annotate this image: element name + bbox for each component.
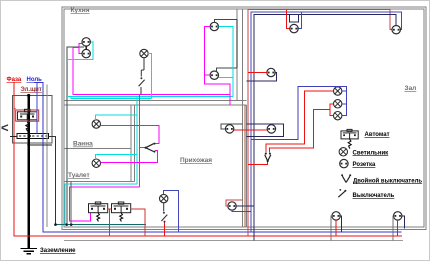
node bus junction 3 — [70, 223, 73, 226]
wire cyan toilet bottom run — [65, 184, 137, 224]
wire magenta bath lamp — [101, 125, 140, 127]
node panel top junction — [27, 94, 30, 97]
wire cyan kitchen lamp drop — [148, 54, 151, 99]
panel box — [13, 96, 53, 143]
breaker-socket toilet 1 — [89, 202, 108, 213]
wire red breaker drop mid — [109, 209, 111, 236]
wire cyan riser to bath zone — [136, 97, 138, 185]
wire navy neutral chandelier — [251, 86, 347, 139]
wire red tap socket H — [335, 220, 337, 236]
legend socket symbol — [340, 159, 348, 167]
wall toilet bottom — [64, 181, 135, 183]
socket hall bottom I — [394, 212, 402, 220]
wire blue tap hall top socket 1 — [298, 12, 301, 28]
lamp chandelier 3 — [334, 112, 342, 120]
lamp kitchen — [140, 49, 148, 57]
wire magenta kitchen socket bracket — [79, 44, 82, 54]
lamp bath — [92, 120, 100, 128]
wire ground kitchen sockets (dark) — [67, 47, 84, 225]
breaker-socket toilet 2 — [112, 202, 131, 213]
wire red riser and top run — [248, 10, 392, 237]
wire kitchen lamp stem — [143, 58, 145, 70]
wire cyan toilet lamp — [96, 154, 137, 159]
socket hall top 2 — [392, 26, 400, 34]
wire black kitchen wall ground vertical — [236, 19, 238, 68]
node panel bottom junction — [27, 143, 30, 146]
lamp hallway — [160, 194, 168, 202]
wall building outer — [62, 7, 426, 229]
node bus junction 1 — [54, 223, 57, 226]
wall bath-toilet divider — [64, 148, 131, 150]
wire navy tap chandelier 2 — [342, 103, 347, 105]
wall kitchen right — [236, 9, 238, 100]
wire ground kitchen socket 3 — [214, 19, 237, 22]
wire navy bracket hall top socket 1 — [289, 15, 298, 22]
wire gray tap socket H — [330, 216, 333, 241]
socket kitchen 4 (right bottom) — [210, 71, 218, 79]
svg-text:Кухня: Кухня — [71, 7, 90, 14]
wire magenta tap socket 4 — [204, 74, 210, 76]
switch hall double — [265, 153, 271, 162]
svg-text:Эл.щит: Эл.щит — [21, 87, 42, 93]
wire black meter stub left — [10, 136, 17, 138]
svg-text:Прихожая: Прихожая — [180, 157, 212, 164]
wire link between kitchen sockets — [85, 46, 87, 49]
socket hallway east — [228, 202, 236, 210]
svg-text:Розетка: Розетка — [353, 162, 377, 168]
wire black meter stub to bottom bus — [49, 137, 56, 225]
wire navy bracket socket F — [246, 124, 283, 136]
wire neutral blue: label to panel interior — [36, 83, 38, 134]
wire phase red main: label to panel, down and along bottom — [14, 82, 402, 236]
wire teal ground bus bottom — [56, 224, 147, 226]
wall hall west (double) — [241, 9, 243, 227]
svg-text:Ноль: Ноль — [27, 77, 43, 83]
wire PEN bus (thick black) — [28, 96, 30, 249]
wire navy hallway socket right 2 — [232, 210, 251, 211]
breaker zigzag lightning — [26, 122, 29, 131]
wire gray tap socket I — [392, 216, 395, 241]
WALLS — [62, 7, 426, 229]
switch bath-toilet double — [145, 143, 156, 153]
wire gray bottom run — [64, 240, 403, 242]
socket hall wall F — [267, 125, 275, 133]
wire red tap hall left socket — [248, 72, 267, 74]
wire navy tap socket H — [340, 216, 341, 232]
switch hallway — [161, 203, 167, 223]
wire red bracket hallway socket — [226, 200, 242, 206]
wire gray ground toilet drop — [70, 182, 72, 225]
wire red tap hall top socket 1 — [287, 10, 290, 29]
wire red breaker right — [131, 209, 145, 236]
wire navy taps chandelier — [342, 90, 347, 92]
svg-text:Ванна: Ванна — [73, 141, 93, 148]
wire navy riser and top run — [254, 15, 396, 241]
wire gray service — [46, 85, 48, 227]
svg-text:Двойной выключатель: Двойной выключатель — [353, 177, 422, 184]
meter terminal strip — [17, 133, 49, 138]
wire ground kitchen socket 4 — [217, 68, 238, 72]
wire dark red riser hallway — [244, 105, 246, 227]
legend breaker symbol — [341, 129, 358, 139]
legend switch symbol — [338, 189, 346, 197]
breaker zigzag toilet 2 — [120, 213, 123, 222]
wire navy hallway socket right 1 — [236, 205, 254, 207]
wire cyan kitchen socket bracket — [67, 42, 233, 97]
socket hallway G — [225, 125, 233, 133]
wire red feed switch common — [248, 161, 268, 164]
svg-text:<: < — [1, 120, 9, 135]
wire magenta riser to bath zone — [138, 95, 140, 187]
socket kitchen 3 (right top) — [210, 22, 218, 30]
switch kitchen — [139, 70, 145, 95]
wire cyan kitchen right sockets — [219, 27, 234, 97]
wire magenta switch common feed — [139, 147, 144, 149]
wire magenta kitchen feed — [73, 47, 230, 94]
svg-text:Выключатель: Выключатель — [353, 193, 395, 199]
legend lamp symbol — [339, 148, 347, 156]
socket hall left wall — [267, 68, 275, 76]
wire navy tap socket I — [402, 216, 405, 229]
wire red tap socket I — [397, 220, 399, 236]
socket kitchen 2 — [82, 49, 90, 57]
wire red breaker jumper — [108, 208, 112, 210]
wire black panel bottom line — [29, 144, 53, 146]
breaker in panel (автомат) — [16, 109, 39, 121]
svg-text:Зал: Зал — [405, 85, 417, 92]
node bus junction 2 — [65, 223, 68, 226]
svg-text:Туалет: Туалет — [68, 172, 90, 179]
wire magenta switch out 1 — [139, 126, 159, 144]
wall kitchen bottom (double) — [64, 99, 246, 101]
svg-text:Заземление: Заземление — [40, 248, 76, 254]
wire red tap socket F — [234, 129, 267, 131]
lamp chandelier 1 — [334, 87, 342, 95]
wire cyan kitchen run B — [71, 97, 152, 99]
wire neutral blue main: to the right of panel, down and along bottom — [34, 83, 402, 233]
wire cyan bath lamp — [96, 115, 137, 120]
wire magenta kitchen right sockets — [204, 27, 230, 105]
socket kitchen 1 — [82, 38, 90, 46]
socket hall bottom H — [332, 212, 340, 220]
wire magenta toilet lamp — [101, 151, 158, 163]
wire red hallway switch drop — [164, 223, 166, 237]
wire blue riser and top run — [251, 12, 402, 232]
socket hall top 1 — [290, 24, 298, 32]
svg-text:Автомат: Автомат — [365, 132, 390, 138]
lamp chandelier 2 — [334, 100, 342, 108]
wire magenta toilet bottom run — [69, 187, 139, 221]
wire navy bracket hall left socket — [246, 73, 276, 82]
lamp toilet — [92, 159, 100, 167]
breaker zigzag toilet 1 — [97, 213, 100, 222]
wire ground bracket socket G — [221, 124, 242, 129]
wall bath east (double) — [130, 105, 132, 182]
legend double switch symbol — [341, 174, 351, 182]
wall building inner — [64, 9, 424, 227]
wire red bracket lamp3 — [330, 109, 334, 115]
wire blue hallway lamp loop — [164, 190, 179, 232]
wire red inside panel to breaker — [14, 108, 16, 110]
ground symbol — [21, 249, 38, 254]
wire red switched line lamps 2-3 — [270, 104, 334, 153]
legend breaker zigzag — [348, 139, 351, 149]
svg-text:Светильник: Светильник — [353, 150, 389, 156]
wire red switched line lamp1 — [266, 91, 334, 153]
